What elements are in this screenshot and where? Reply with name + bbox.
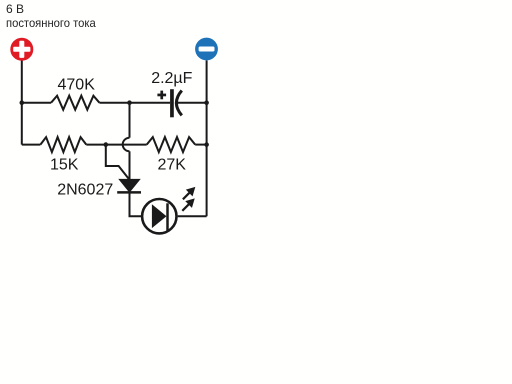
node: junction dot top rail / anode line <box>127 100 132 105</box>
battery negative terminal <box>195 38 218 61</box>
resistor 470K <box>51 96 99 110</box>
LED D1 triangle <box>152 204 167 228</box>
node: junction dot lower rail / right rail <box>204 142 209 147</box>
svg-text:2.2µF: 2.2µF <box>151 70 192 87</box>
wire: top rail left segment <box>22 102 51 104</box>
resistor 27K <box>147 137 196 152</box>
LED D1 cathode bar <box>166 203 169 230</box>
wire: PUT cathode down and bottom wire to LED <box>130 192 142 216</box>
supply label "6 В постоянного тока" <box>6 2 102 31</box>
LED D1 emission arrow upper <box>183 188 195 200</box>
wire: lower rail right segment <box>195 144 206 146</box>
wire: left rail from + terminal down to lower rail <box>21 61 23 145</box>
svg-text:2N6027: 2N6027 <box>57 182 113 199</box>
wire: anode line from top rail down to hop <box>129 103 131 138</box>
capacitor C1 positive plate <box>170 89 174 117</box>
wire: anode line from hop down to PUT <box>129 151 131 179</box>
capacitor C1 polarity plus mark <box>157 91 166 100</box>
svg-text:470K: 470K <box>58 77 96 94</box>
capacitor C1 negative curved plate <box>176 91 181 116</box>
node: junction dot top rail / right rail <box>204 100 209 105</box>
wire: capacitor to right rail <box>178 102 207 104</box>
wire: lower rail middle segment <box>86 144 146 146</box>
node: junction dot divider / gate <box>104 142 109 147</box>
battery positive terminal <box>10 38 33 61</box>
wire: top rail to capacitor <box>99 102 170 104</box>
wire: LED to right rail <box>178 215 207 217</box>
svg-text:27K: 27K <box>158 157 187 174</box>
svg-text:15K: 15K <box>50 156 79 173</box>
node: junction dot left rail / top rail <box>20 100 25 105</box>
wire: crossover hop over lower rail <box>123 138 130 152</box>
LED D1 emission arrow lower <box>182 199 194 211</box>
wire: gate lead from divider node <box>106 145 130 180</box>
LED D1 circle <box>142 199 176 233</box>
wire: lower rail left segment <box>22 144 41 146</box>
resistor 15K <box>40 137 86 152</box>
wire: right rail from - terminal down to bottom wire <box>206 60 208 216</box>
transistor Q1 2N6027 PUT triangle <box>119 179 139 192</box>
transistor Q1 cathode bar <box>117 191 141 194</box>
